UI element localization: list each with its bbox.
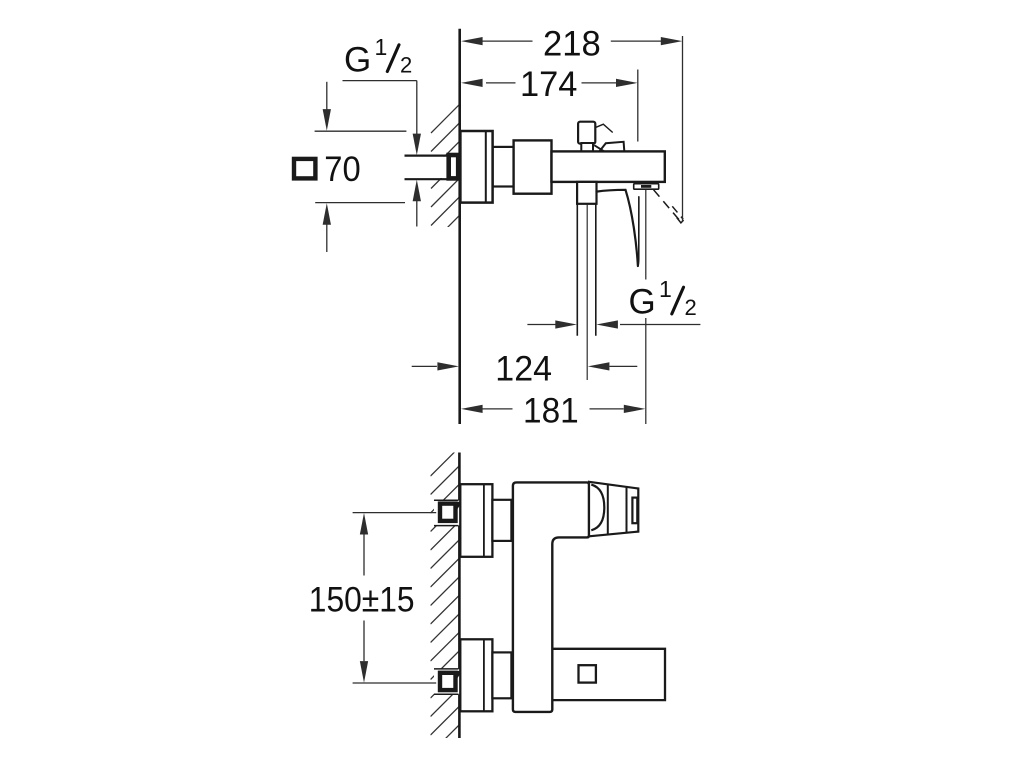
svg-text:G: G (629, 283, 656, 322)
svg-text:1: 1 (659, 276, 672, 302)
svg-text:1: 1 (375, 34, 388, 60)
svg-text:174: 174 (520, 65, 577, 104)
svg-text:2: 2 (685, 295, 697, 320)
svg-text:181: 181 (523, 392, 579, 431)
svg-text:2: 2 (400, 53, 412, 78)
svg-text:70: 70 (324, 150, 360, 189)
svg-text:150±15: 150±15 (309, 581, 415, 620)
svg-text:218: 218 (543, 25, 601, 64)
svg-text:124: 124 (495, 350, 552, 389)
svg-text:G: G (344, 40, 371, 79)
